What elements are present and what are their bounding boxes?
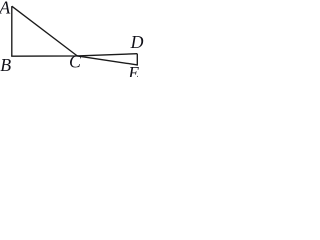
svg-text:A: A <box>0 0 10 18</box>
svg-text:E: E <box>127 63 139 77</box>
svg-text:D: D <box>130 32 144 52</box>
svg-text:C: C <box>69 52 82 72</box>
svg-text:B: B <box>0 55 11 75</box>
